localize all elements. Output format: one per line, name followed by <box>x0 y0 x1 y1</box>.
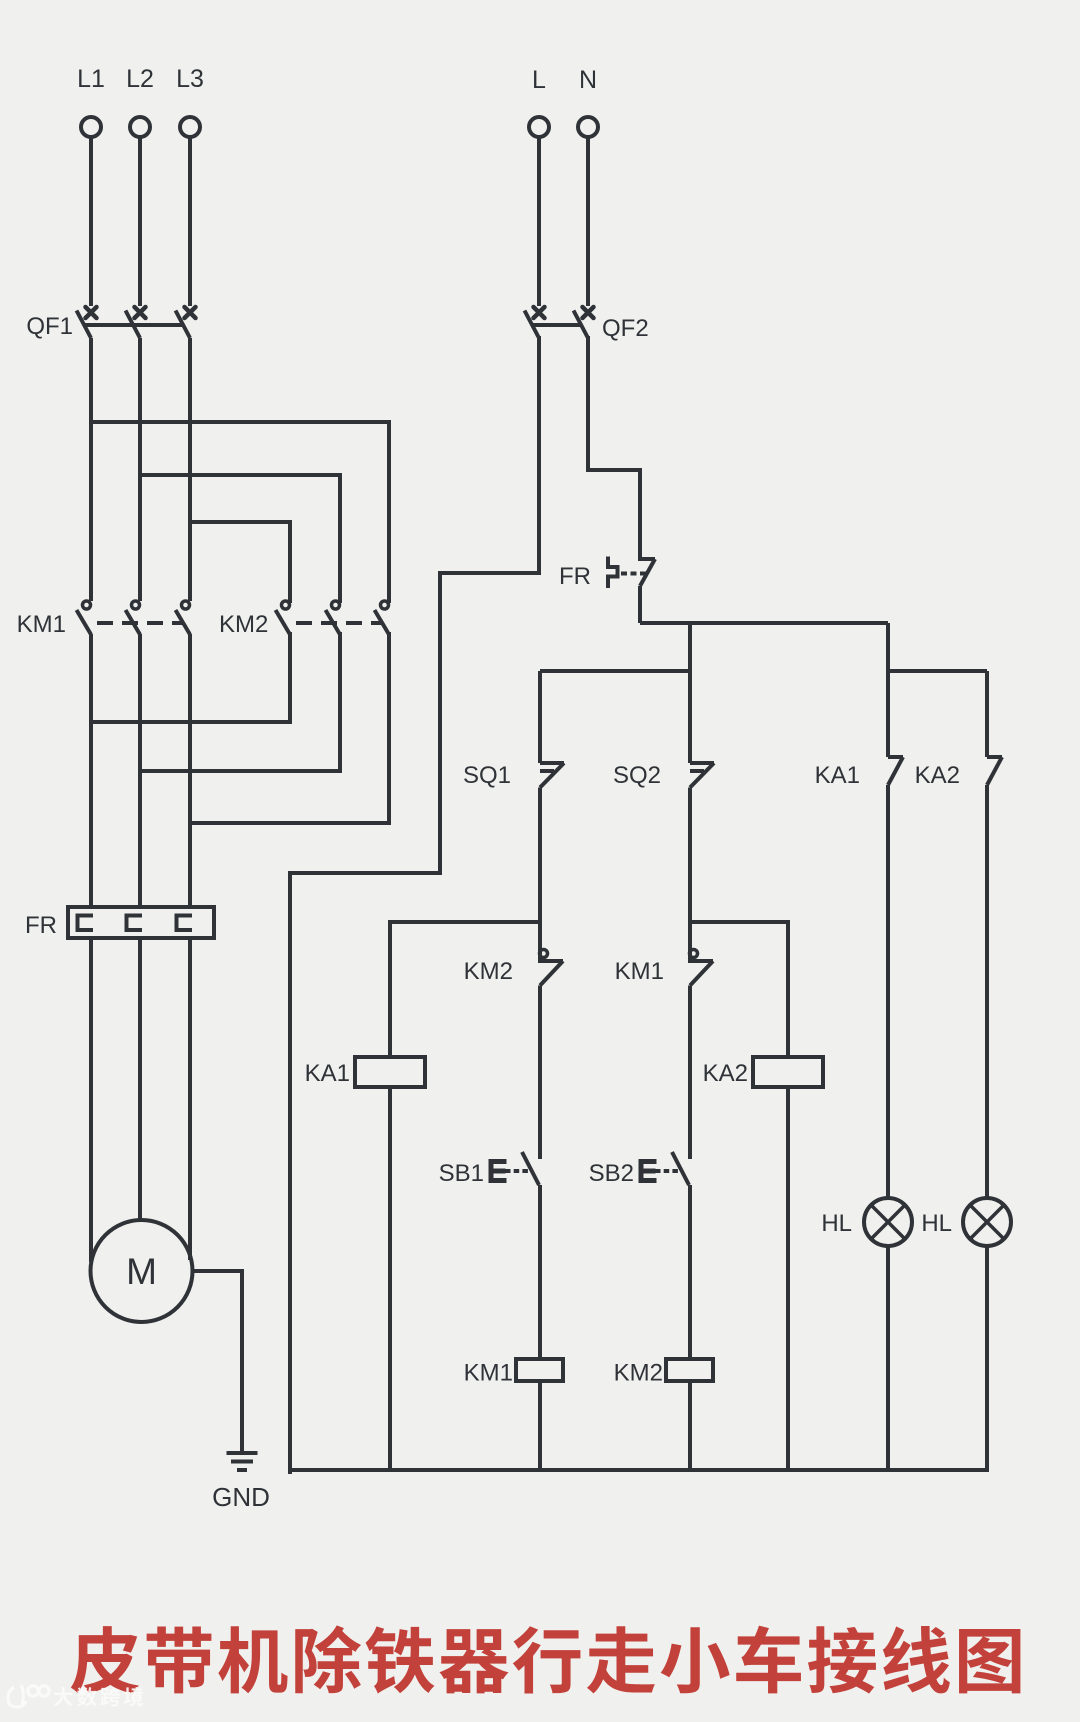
wire L1 to QF1 <box>89 137 93 306</box>
svg-text:L3: L3 <box>176 65 204 93</box>
wire FR contact to bus <box>638 586 642 623</box>
lamp HL2 <box>921 1198 1011 1246</box>
limit switch SQ2 <box>613 762 714 789</box>
wire L3 branch to KM2 pole1 <box>190 522 290 601</box>
svg-text:SQ2: SQ2 <box>613 762 661 789</box>
svg-text:M: M <box>126 1251 157 1292</box>
wire KM1 pole2 to FR <box>138 634 142 909</box>
wire junction to KA1 coil <box>390 922 540 1057</box>
wire QF1-L2 down to KM1 <box>138 338 142 601</box>
svg-text:KA2: KA2 <box>703 1060 748 1087</box>
wire FR to motor W <box>188 938 192 1260</box>
wire bus to KA2 <box>888 669 987 673</box>
svg-text:FR: FR <box>559 563 591 590</box>
wire SB2 to KM2 coil <box>688 1185 692 1359</box>
wire HL1 to rail <box>886 1246 890 1472</box>
terminal L <box>529 66 549 137</box>
watermark logo <box>8 1685 49 1707</box>
wire L1 branch to KM2 pole3 <box>91 422 389 601</box>
svg-text:L2: L2 <box>126 65 154 93</box>
wire bus to SQ1 <box>540 669 690 673</box>
wire FR to motor V <box>138 938 142 1222</box>
wire SQ2 branch top <box>688 623 692 763</box>
svg-text:L: L <box>532 66 546 94</box>
wire SQ2 to KM1 contact <box>688 788 692 962</box>
wire KM2 contact to SB1 <box>538 986 542 1160</box>
wire KA2 branch top <box>985 671 989 757</box>
wire L to QF2 <box>537 137 541 306</box>
thermal overload FR NC contact <box>559 559 655 591</box>
wire KA1 contact to lamp HL1 <box>886 785 890 1198</box>
terminal N <box>578 66 598 137</box>
wire bus after FR <box>640 621 888 625</box>
svg-text:KA1: KA1 <box>305 1060 350 1087</box>
svg-text:SB2: SB2 <box>589 1160 634 1187</box>
svg-text:KM2: KM2 <box>464 958 513 985</box>
svg-text:HL: HL <box>821 1210 852 1237</box>
pushbutton SB1 <box>439 1152 539 1187</box>
terminal L2 <box>126 65 154 137</box>
lamp HL1 <box>821 1198 912 1246</box>
svg-text:HL: HL <box>921 1210 952 1237</box>
wire N to QF2 <box>586 137 590 306</box>
svg-text:GND: GND <box>212 1482 270 1512</box>
svg-text:KM1: KM1 <box>17 611 66 638</box>
wire bottom rail <box>288 1468 987 1472</box>
wire KM1 pole1 to FR <box>89 634 93 909</box>
wire KM2 pole1 output <box>91 634 290 722</box>
circuit breaker QF2 <box>525 307 649 342</box>
svg-text:SQ1: SQ1 <box>463 762 511 789</box>
relay contact KA2 <box>915 757 1002 789</box>
wire QF1-L1 down to KM1 <box>89 338 93 601</box>
contactor KM2 main contacts <box>219 601 389 638</box>
thermal overload relay FR heater element <box>25 907 214 939</box>
wire SQ1 branch top <box>538 671 542 763</box>
relay coil KA1 <box>305 1057 425 1087</box>
wire SB1 to KM1 coil <box>538 1185 542 1359</box>
circuit breaker QF1 <box>26 307 195 340</box>
wire L3 to QF1 <box>188 137 192 306</box>
svg-text:QF2: QF2 <box>602 315 649 342</box>
svg-text:QF1: QF1 <box>26 313 73 340</box>
svg-text:KM1: KM1 <box>615 958 664 985</box>
wire KA1 coil to rail <box>388 1087 392 1472</box>
wire FR to motor U <box>89 938 93 1262</box>
interlock contact KM2 <box>464 950 563 986</box>
terminal L1 <box>77 65 105 137</box>
title 皮带机除铁器行走小车接线图 <box>71 1625 1021 1693</box>
wire L2 to QF1 <box>138 137 142 306</box>
svg-text:L1: L1 <box>77 65 105 93</box>
wire KM1 pole3 to FR <box>188 634 192 909</box>
pushbutton SB2 <box>589 1152 689 1187</box>
svg-text:N: N <box>579 66 597 94</box>
motor M <box>91 1220 193 1322</box>
wire KA1 branch top <box>886 623 890 757</box>
limit switch SQ1 <box>463 762 564 789</box>
wire HL2 to rail <box>985 1246 989 1472</box>
svg-text:KM1: KM1 <box>464 1360 513 1387</box>
wire KM2 pole3 output <box>190 634 389 823</box>
wire motor to ground <box>193 1271 243 1452</box>
wire QF1-L3 down to KM1 <box>188 338 192 601</box>
wire KM2 pole2 output <box>140 634 340 771</box>
contactor coil KM2 <box>614 1359 713 1387</box>
wire QF2-L to left rail <box>290 338 539 1472</box>
contactor coil KM1 <box>464 1359 563 1387</box>
svg-text:SB1: SB1 <box>439 1160 484 1187</box>
wire KM2 coil to rail <box>688 1381 692 1472</box>
wire KA2 contact to lamp HL2 <box>985 785 989 1198</box>
interlock contact KM1 <box>615 950 713 986</box>
wire QF2-N to FR contact <box>588 338 640 559</box>
svg-text:KA2: KA2 <box>915 762 960 789</box>
ground GND <box>212 1453 270 1512</box>
relay coil KA2 <box>703 1057 823 1087</box>
terminal L3 <box>176 65 204 137</box>
wire KM1 contact to SB2 <box>688 986 692 1160</box>
wire L2 branch to KM2 pole2 <box>140 475 340 601</box>
svg-text:FR: FR <box>25 912 57 939</box>
svg-text:KM2: KM2 <box>219 611 268 638</box>
wire KA2 coil to rail <box>786 1087 790 1472</box>
wire KM1 coil to rail <box>538 1381 542 1472</box>
relay contact KA1 <box>815 757 903 789</box>
svg-text:KA1: KA1 <box>815 762 860 789</box>
wire SQ1 to KM2 contact <box>538 788 542 962</box>
svg-text:KM2: KM2 <box>614 1360 663 1387</box>
wire junction to KA2 coil <box>690 922 788 1057</box>
watermark text 大数跨境 <box>54 1687 143 1707</box>
contactor KM1 main contacts <box>17 601 190 638</box>
